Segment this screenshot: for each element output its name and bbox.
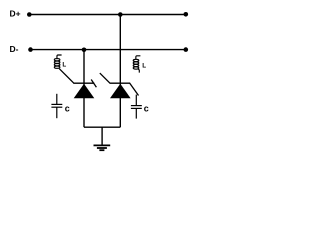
svg-text:c: c xyxy=(65,103,70,113)
inductor L1 (left parasitic inductance coil) xyxy=(54,55,61,68)
diode D1 triangle (anode) xyxy=(74,84,95,99)
wire lead from D2 cathode toward capacitor C2 xyxy=(129,83,138,96)
node D- junction dot xyxy=(82,48,87,53)
node D- right terminal dot xyxy=(184,47,189,52)
wire bottom rail xyxy=(84,126,120,128)
node D+ right terminal dot xyxy=(184,12,189,17)
node D+ left terminal dot xyxy=(27,12,32,17)
node D- left terminal dot xyxy=(28,47,33,52)
wire right branch vertical xyxy=(119,15,121,128)
wire ground stem xyxy=(101,127,103,145)
svg-text:D+: D+ xyxy=(10,9,21,19)
wire D+ rail xyxy=(29,14,186,16)
capacitor C2 plates xyxy=(131,105,142,107)
capacitor C2 top stub xyxy=(135,95,137,106)
wire lead from D- trace into diode D2 cathode xyxy=(100,73,110,83)
wire left branch vertical xyxy=(83,50,85,128)
node D+ junction dot xyxy=(118,12,123,17)
wire D- rail xyxy=(31,49,186,51)
capacitor C1 bottom stub xyxy=(56,107,58,118)
ground xyxy=(94,145,111,150)
capacitor C2 bottom stub xyxy=(135,109,137,119)
svg-text:L: L xyxy=(62,61,66,68)
inductor L2 (right parasitic inductance coil) xyxy=(133,56,140,73)
capacitor C1 top stub xyxy=(56,94,58,104)
diode D2 cathode bar xyxy=(110,82,130,84)
svg-text:D-: D- xyxy=(10,44,19,54)
wire lead from L1 to diode D1 cathode xyxy=(59,69,74,84)
svg-text:L: L xyxy=(142,63,146,70)
svg-text:c: c xyxy=(144,104,149,114)
capacitor C1 plates xyxy=(51,103,62,105)
diode D1 bar-end tick xyxy=(91,80,96,88)
diode D2 triangle (anode) xyxy=(110,84,131,99)
diode D1 cathode bar xyxy=(74,82,95,84)
